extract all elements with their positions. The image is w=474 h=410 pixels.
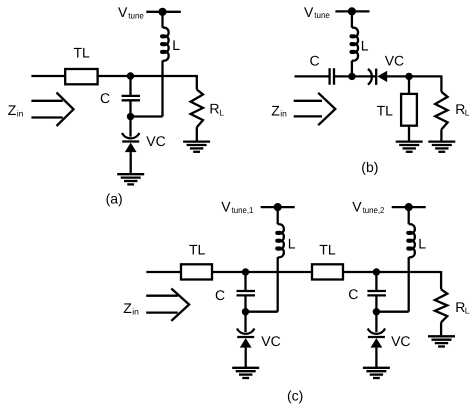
svg-text:R: R [455,101,465,117]
svg-text:VC: VC [385,53,404,69]
ground under VC1 (c) [232,367,259,369]
capacitor C (a) [129,76,131,95]
svg-text:tune,2: tune,2 [363,205,385,215]
wire RL to ground (b) [440,130,442,142]
resistor RL (b) [435,92,447,130]
svg-text:L: L [361,37,369,53]
node junction dot L/main (b) [348,73,355,80]
svg-text:VC: VC [146,133,165,149]
svg-text:tune: tune [314,10,330,20]
wire L1 bottom crossing main (c) [277,257,279,312]
svg-text:TL: TL [319,241,336,257]
svg-text:C: C [215,287,225,303]
node junction dot C/VC (a) [127,113,134,120]
wire main to RL down (c) [440,271,442,289]
wire main to RL down (b) [440,75,442,91]
wire L to main node (b) [351,61,353,77]
wire connector C/VC node to L line (a) [131,115,163,117]
wire Vtune to L (a) [161,12,163,28]
svg-text:TL: TL [189,241,206,257]
svg-text:L: L [172,37,180,53]
inductor L2 (c) [407,224,415,257]
svg-text:L: L [219,107,224,117]
wire connector C2/VC2 node to L2 (c) [376,311,408,313]
inductor L (b) [351,28,359,61]
svg-text:L: L [465,107,470,117]
wire C/VC node down (a) [129,117,131,137]
node junction dot C2/VC2 (c) [373,308,380,315]
wire main TL1 to TL2 (c) [212,271,312,273]
capacitor C series (b) [328,68,330,85]
svg-text:(b): (b) [361,159,378,175]
svg-text:in: in [280,109,287,119]
resistor RL (c) [435,289,447,322]
svg-text:TL: TL [377,102,394,118]
ground under RL (b) [428,140,455,142]
svg-text:TL: TL [74,45,91,61]
ground under VC2 (c) [363,367,390,369]
svg-text:R: R [455,299,465,315]
svg-text:L: L [288,236,296,252]
svg-text:Z: Z [123,300,132,316]
wire TL to ground (b) [408,126,410,142]
inductor L1 (c) [276,224,284,257]
transmission line TL1 box (c) [181,264,212,279]
svg-text:L: L [418,236,426,252]
wire input left (a) [31,75,65,77]
wire main to RL down (a) [196,75,198,90]
transmission line TL2 box (c) [312,264,343,279]
arrow Zin (c) [146,295,178,297]
wire varactor to RL (b) [387,75,442,77]
ground under RL (a) [183,140,210,142]
svg-text:Z: Z [8,102,17,118]
varactor VC (a) [122,133,139,138]
wire main TL2 to RL (c) [343,271,441,273]
node junction dot main/C1 (c) [242,268,249,275]
node Vtune junction dot (b) [348,7,356,15]
wire main TL to RL (a) [98,75,198,77]
svg-text:(c): (c) [287,387,303,403]
node Vtune junction dot (a) [158,8,166,16]
wire connector C1/VC1 node to L1 (c) [246,311,278,313]
svg-text:Z: Z [271,102,280,118]
node junction dot TL (b) [405,73,412,80]
wire Vtune1 to L1 (c) [277,207,279,224]
varactor VC1 (c) [237,329,254,334]
svg-text:L: L [465,306,470,316]
varactor VC2 (c) [368,329,385,334]
wire input left (c) [146,271,181,273]
transmission line TL box (b) [401,94,417,126]
wire input left (b) [295,75,330,77]
arrow Zin (a) [31,100,62,102]
wire L2 bottom crossing main (c) [408,257,410,312]
node junction dot C1/VC1 (c) [242,308,249,315]
wire node to TL box (b) [408,76,410,94]
wire RL to ground (a) [196,127,198,141]
wire VC2 to ground (c) [375,348,377,368]
ground under RL (c) [428,335,455,337]
node junction dot main/C (a) [127,72,134,79]
svg-text:C: C [100,90,110,106]
wire RL to ground (c) [440,322,442,336]
wire C1/VC1 node down (c) [244,312,246,332]
capacitor C2 (c) [375,272,377,290]
ground under TL (b) [396,140,423,142]
svg-text:V: V [118,4,128,20]
svg-text:C: C [310,53,320,69]
svg-text:in: in [132,306,139,316]
resistor RL (a) [191,90,203,128]
node Vtune1 junction dot (c) [274,203,282,211]
wire Vtune2 top (c) [392,206,426,208]
transmission line TL box (a) [65,69,97,84]
wire Vtune top (b) [335,10,369,12]
varactor VC (b) [368,69,372,85]
svg-text:(a): (a) [106,191,123,207]
svg-text:V: V [304,4,314,20]
svg-text:C: C [348,286,358,302]
svg-text:tune,1: tune,1 [232,205,254,215]
wire VC to ground (a) [130,152,132,174]
ground under VC (a) [117,173,144,175]
svg-text:V: V [352,198,362,214]
svg-text:tune: tune [128,11,144,21]
wire Vtune1 top (c) [261,206,295,208]
wire Vtune top (a) [146,11,181,13]
arrow Zin (b) [294,100,322,102]
svg-text:R: R [209,101,219,117]
wire C2/VC2 node down (c) [375,312,377,332]
wire Vtune2 to L2 (c) [408,207,410,224]
wire cap to varactor (b) [335,75,376,77]
svg-text:V: V [221,198,231,214]
svg-text:VC: VC [261,333,280,349]
node Vtune2 junction dot (c) [405,203,413,211]
svg-text:VC: VC [391,333,410,349]
wire VC1 to ground (c) [245,348,247,368]
wire L bottom crossing main line (a) [161,61,163,117]
node junction dot main/C2 (c) [373,268,380,275]
capacitor C1 (c) [244,272,246,290]
svg-text:in: in [17,108,24,118]
inductor L (a) [161,28,169,61]
wire Vtune to L (b) [351,11,353,27]
